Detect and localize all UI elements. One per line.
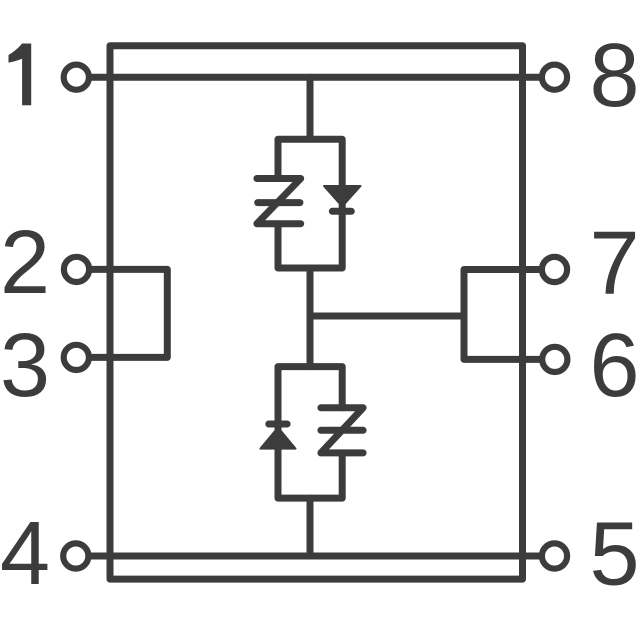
svg-text:3: 3 bbox=[0, 316, 50, 416]
svg-text:8: 8 bbox=[590, 26, 640, 126]
svg-text:2: 2 bbox=[0, 213, 50, 313]
svg-text:4: 4 bbox=[0, 504, 50, 604]
svg-text:6: 6 bbox=[590, 316, 640, 416]
svg-text:5: 5 bbox=[590, 505, 640, 605]
svg-text:7: 7 bbox=[590, 214, 640, 314]
